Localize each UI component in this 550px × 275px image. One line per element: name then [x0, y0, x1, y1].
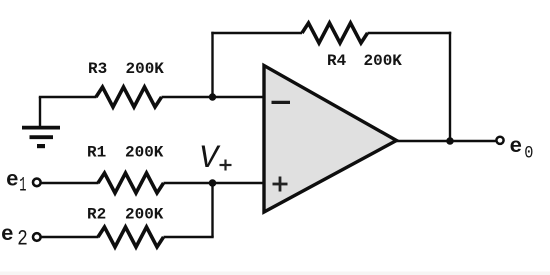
resistor R2	[98, 227, 164, 247]
svg-text:200K: 200K	[126, 60, 165, 78]
op-amp U1	[264, 66, 397, 213]
resistor R4	[302, 23, 368, 43]
wire: feedback vertical right	[449, 32, 451, 141]
wire: R3 to op-amp inverting input	[162, 96, 265, 98]
plus sign of non-inverting input	[273, 177, 288, 192]
svg-text:200K: 200K	[125, 206, 164, 224]
svg-text:R3: R3	[88, 60, 107, 78]
plus sign of node V+	[220, 160, 232, 171]
svg-text:e: e	[1, 224, 14, 247]
svg-text:200K: 200K	[125, 144, 164, 162]
terminal e2	[33, 233, 41, 241]
wire: e2 to R2	[41, 236, 99, 238]
ground	[22, 128, 60, 147]
svg-text:1: 1	[19, 173, 26, 196]
svg-text:2: 2	[17, 226, 28, 251]
bottom edge tint	[0, 272, 550, 275]
wire: R1 to op-amp non-inverting input	[164, 182, 265, 184]
wire: vertical riser to V+ node	[211, 183, 213, 237]
svg-text:0: 0	[524, 143, 533, 163]
resistor R3	[96, 87, 162, 107]
svg-text:R4: R4	[327, 52, 347, 70]
wire: ground to R3	[39, 96, 97, 98]
terminal e0	[496, 137, 503, 144]
wire: feedback top right segment	[368, 32, 452, 34]
node: inverting input junction	[209, 93, 216, 100]
svg-text:e: e	[510, 136, 523, 159]
svg-text:R1: R1	[87, 144, 106, 162]
node V+ junction	[209, 179, 217, 187]
node: output junction	[446, 137, 454, 145]
terminal e1	[33, 179, 41, 187]
wire: ground vertical drop	[39, 97, 41, 127]
minus sign of inverting input	[272, 101, 291, 104]
svg-text:200K: 200K	[364, 52, 403, 70]
svg-text:e: e	[6, 170, 19, 193]
resistor R1	[98, 173, 164, 193]
svg-text:R2: R2	[87, 206, 106, 224]
wire: feedback vertical left	[211, 32, 213, 98]
wire: feedback top left segment	[211, 32, 302, 34]
wire: R2 to V+ vertical riser	[164, 236, 214, 238]
wire: e1 to R1	[41, 182, 99, 184]
wire: op-amp output	[394, 140, 496, 142]
svg-text:V: V	[199, 140, 221, 177]
